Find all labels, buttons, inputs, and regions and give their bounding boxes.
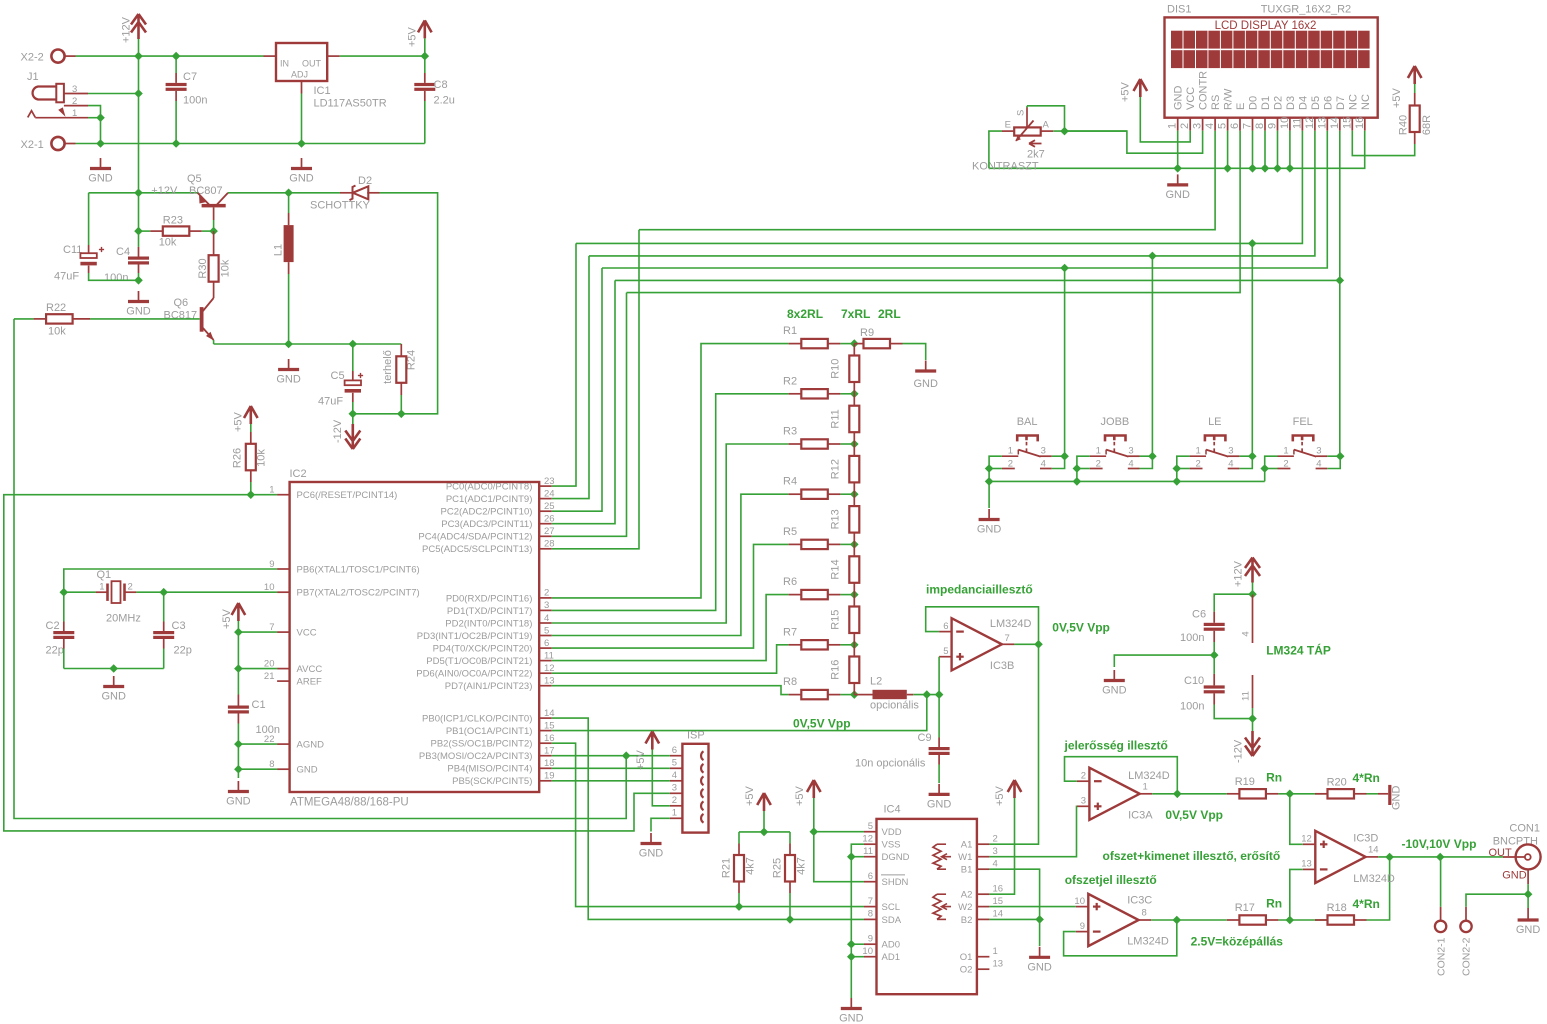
svg-text:68R: 68R: [1421, 115, 1433, 135]
svg-text:4k7: 4k7: [796, 857, 808, 875]
svg-text:ISP: ISP: [687, 730, 705, 742]
svg-text:1: 1: [672, 808, 677, 819]
svg-text:14: 14: [993, 909, 1004, 920]
svg-text:PB3(MOSI/OC2A/PCINT3): PB3(MOSI/OC2A/PCINT3): [419, 751, 533, 762]
svg-text:4: 4: [1228, 459, 1233, 470]
svg-text:PD0(RXD/PCINT16): PD0(RXD/PCINT16): [446, 593, 533, 604]
svg-text:D6: D6: [1322, 96, 1334, 110]
svg-text:+5V: +5V: [233, 411, 245, 432]
svg-text:10: 10: [862, 946, 873, 957]
svg-text:7: 7: [868, 896, 873, 907]
svg-text:+5V: +5V: [744, 785, 756, 806]
svg-text:C3: C3: [172, 620, 186, 632]
svg-text:5: 5: [672, 758, 677, 769]
svg-text:R25: R25: [772, 858, 784, 878]
svg-text:GND: GND: [1173, 86, 1185, 111]
svg-text:1: 1: [1167, 123, 1179, 129]
svg-text:ATMEGA48/88/168-PU: ATMEGA48/88/168-PU: [290, 797, 409, 809]
svg-text:17: 17: [544, 746, 555, 757]
svg-text:D1: D1: [1260, 96, 1272, 110]
svg-text:4: 4: [1316, 459, 1321, 470]
svg-text:16: 16: [993, 883, 1004, 894]
svg-text:IC3B: IC3B: [990, 660, 1014, 672]
svg-text:X2-2: X2-2: [21, 52, 44, 64]
svg-text:VCC: VCC: [1185, 87, 1197, 110]
svg-text:R40: R40: [1398, 115, 1410, 135]
svg-text:GND: GND: [1391, 786, 1403, 811]
svg-text:47uF: 47uF: [318, 396, 343, 408]
svg-text:PC6(/RESET/PCINT14): PC6(/RESET/PCINT14): [297, 490, 398, 501]
svg-text:PD5(T1/OC0B/PCINT21): PD5(T1/OC0B/PCINT21): [426, 656, 532, 667]
svg-text:16: 16: [1354, 117, 1366, 129]
svg-text:LE: LE: [1208, 416, 1221, 428]
svg-text:2: 2: [128, 582, 133, 593]
svg-text:C2: C2: [46, 620, 60, 632]
svg-text:W1: W1: [958, 852, 972, 863]
svg-text:10: 10: [264, 582, 275, 593]
svg-text:4: 4: [1204, 123, 1216, 129]
svg-text:J1: J1: [27, 71, 39, 83]
svg-text:4: 4: [544, 613, 549, 624]
svg-text:3: 3: [1228, 446, 1233, 457]
svg-text:13: 13: [544, 676, 555, 687]
svg-text:IC4: IC4: [884, 804, 901, 816]
svg-text:2k7: 2k7: [1027, 149, 1045, 161]
svg-text:R8: R8: [783, 676, 797, 688]
svg-text:8: 8: [1142, 908, 1147, 919]
svg-text:PD7(AIN1/PCINT23): PD7(AIN1/PCINT23): [445, 681, 533, 692]
svg-text:+5V: +5V: [1120, 81, 1132, 102]
svg-text:11: 11: [1241, 691, 1252, 701]
svg-text:impedanciaillesztő: impedanciaillesztő: [926, 583, 1033, 597]
svg-text:Q1: Q1: [97, 569, 112, 581]
svg-text:11: 11: [544, 650, 554, 661]
svg-text:D0: D0: [1248, 96, 1260, 110]
svg-text:LM324D: LM324D: [1353, 873, 1395, 885]
svg-text:B1: B1: [961, 865, 973, 876]
svg-text:C8: C8: [434, 79, 448, 91]
svg-text:PC4(ADC4/SDA/PCINT12): PC4(ADC4/SDA/PCINT12): [418, 532, 532, 543]
svg-text:PB4(MISO/PCINT4): PB4(MISO/PCINT4): [447, 764, 532, 775]
svg-text:PB2(SS/OC1B/PCINT2): PB2(SS/OC1B/PCINT2): [431, 739, 533, 750]
svg-text:3: 3: [672, 783, 677, 794]
svg-text:1: 1: [1283, 446, 1288, 457]
svg-text:IC2: IC2: [290, 468, 307, 480]
svg-text:GND: GND: [977, 524, 1002, 536]
svg-text:A1: A1: [961, 840, 973, 851]
svg-text:terhelő: terhelő: [382, 350, 394, 384]
svg-text:5: 5: [1217, 123, 1229, 129]
svg-text:4*Rn: 4*Rn: [1353, 771, 1380, 785]
svg-text:DGND: DGND: [882, 852, 910, 863]
svg-text:3: 3: [1192, 123, 1204, 129]
svg-text:2: 2: [672, 795, 677, 806]
svg-text:BC817: BC817: [164, 310, 198, 322]
svg-text:R13: R13: [830, 509, 842, 529]
svg-text:E: E: [1235, 103, 1247, 110]
svg-text:S: S: [1016, 110, 1027, 116]
svg-text:1: 1: [99, 582, 104, 593]
svg-text:IN: IN: [280, 59, 289, 69]
svg-text:BAL: BAL: [1017, 416, 1038, 428]
svg-text:12: 12: [1301, 834, 1312, 845]
svg-text:12: 12: [1304, 117, 1316, 129]
svg-text:+12V: +12V: [1233, 560, 1245, 587]
svg-text:C11: C11: [63, 244, 82, 256]
svg-text:R9: R9: [860, 327, 874, 339]
svg-text:L1: L1: [273, 244, 285, 256]
svg-text:R30: R30: [197, 258, 209, 278]
svg-text:1: 1: [1096, 446, 1101, 457]
svg-text:10k: 10k: [220, 259, 232, 277]
svg-text:ADJ: ADJ: [291, 70, 308, 80]
svg-text:21: 21: [264, 671, 275, 682]
svg-text:GND: GND: [639, 848, 664, 860]
svg-text:1: 1: [1143, 782, 1148, 793]
svg-text:3: 3: [1081, 796, 1086, 807]
svg-text:R1: R1: [783, 325, 797, 337]
svg-text:PB6(XTAL1/TOSC1/PCINT6): PB6(XTAL1/TOSC1/PCINT6): [297, 564, 420, 575]
svg-text:2: 2: [1008, 459, 1013, 470]
svg-text:47uF: 47uF: [54, 271, 79, 283]
svg-text:AD0: AD0: [882, 940, 900, 951]
svg-text:R5: R5: [783, 526, 797, 538]
svg-text:1: 1: [993, 946, 998, 957]
svg-text:PB5(SCK/PCINT5): PB5(SCK/PCINT5): [452, 776, 532, 787]
svg-text:3: 3: [993, 846, 998, 857]
svg-text:6: 6: [1229, 123, 1241, 129]
svg-text:GND: GND: [126, 306, 151, 318]
svg-text:L2: L2: [870, 676, 882, 688]
svg-text:9: 9: [1080, 921, 1085, 932]
svg-text:D3: D3: [1285, 96, 1297, 110]
svg-text:X2-1: X2-1: [21, 139, 44, 151]
svg-text:GND: GND: [1102, 685, 1127, 697]
svg-text:GND: GND: [913, 378, 938, 390]
svg-text:22p: 22p: [174, 645, 192, 657]
svg-text:CON1: CON1: [1509, 823, 1540, 835]
svg-text:D2: D2: [1273, 96, 1285, 110]
svg-text:C4: C4: [116, 246, 130, 258]
svg-text:GND: GND: [1165, 189, 1190, 201]
svg-text:-12V: -12V: [332, 419, 344, 443]
svg-text:Rn: Rn: [1266, 771, 1282, 785]
svg-text:R22: R22: [46, 302, 66, 314]
svg-text:8: 8: [868, 909, 873, 920]
svg-text:28: 28: [544, 539, 555, 550]
svg-text:PD6(AIN0/OC0A/PCINT22): PD6(AIN0/OC0A/PCINT22): [416, 669, 532, 680]
svg-text:R17: R17: [1235, 902, 1255, 914]
svg-text:9: 9: [868, 933, 873, 944]
svg-text:PB7(XTAL2/TOSC2/PCINT7): PB7(XTAL2/TOSC2/PCINT7): [297, 588, 420, 599]
svg-text:R4: R4: [783, 476, 797, 488]
svg-text:6: 6: [544, 638, 549, 649]
svg-text:IC1: IC1: [314, 85, 331, 97]
svg-text:B2: B2: [961, 915, 973, 926]
svg-text:10: 10: [1074, 896, 1085, 907]
svg-text:RS: RS: [1210, 95, 1222, 110]
svg-text:AVCC: AVCC: [297, 664, 323, 675]
svg-text:R7: R7: [783, 626, 797, 638]
svg-text:15: 15: [993, 896, 1004, 907]
svg-text:C10: C10: [1184, 675, 1204, 687]
svg-text:5: 5: [943, 646, 948, 657]
svg-text:3: 3: [1316, 446, 1321, 457]
svg-text:100n: 100n: [183, 95, 207, 107]
svg-text:LCD DISPLAY 16x2: LCD DISPLAY 16x2: [1215, 20, 1317, 32]
svg-text:R2: R2: [783, 375, 797, 387]
svg-text:100n: 100n: [1180, 701, 1204, 713]
svg-text:18: 18: [544, 758, 555, 769]
svg-text:R10: R10: [830, 359, 842, 379]
svg-text:R21: R21: [721, 858, 733, 878]
svg-text:7: 7: [269, 622, 274, 633]
svg-text:GND: GND: [88, 173, 113, 185]
svg-text:100n: 100n: [104, 272, 128, 284]
svg-text:Q6: Q6: [174, 297, 189, 309]
svg-text:R12: R12: [830, 459, 842, 479]
svg-text:2.2u: 2.2u: [434, 95, 455, 107]
svg-text:PB1(OC1A/PCINT1): PB1(OC1A/PCINT1): [446, 726, 533, 737]
svg-text:ofszetjel illesztő: ofszetjel illesztő: [1065, 873, 1157, 887]
svg-text:NC: NC: [1347, 94, 1359, 110]
svg-text:PC0(ADC0/PCINT8): PC0(ADC0/PCINT8): [446, 482, 533, 493]
svg-text:R3: R3: [783, 426, 797, 438]
svg-text:8x2RL: 8x2RL: [787, 307, 823, 321]
svg-text:3: 3: [1041, 446, 1046, 457]
svg-text:Q5: Q5: [187, 173, 202, 185]
svg-text:5: 5: [544, 625, 549, 636]
svg-text:13: 13: [993, 958, 1004, 969]
svg-text:BC807: BC807: [189, 185, 223, 197]
svg-text:Rn: Rn: [1266, 897, 1282, 911]
svg-text:D5: D5: [1310, 96, 1322, 110]
svg-text:R/W: R/W: [1223, 88, 1235, 110]
svg-text:+5V: +5V: [1391, 87, 1403, 108]
svg-text:A: A: [1043, 120, 1050, 131]
svg-text:R11: R11: [830, 409, 842, 428]
svg-text:22p: 22p: [46, 645, 64, 657]
svg-text:PD2(INT0/PCINT18): PD2(INT0/PCINT18): [445, 618, 532, 629]
svg-text:GND: GND: [1516, 924, 1541, 936]
svg-text:10k: 10k: [256, 449, 268, 467]
svg-text:R26: R26: [232, 448, 244, 468]
svg-text:4: 4: [993, 858, 998, 869]
svg-text:13: 13: [1301, 859, 1312, 870]
svg-text:PC5(ADC5/SCLPCINT13): PC5(ADC5/SCLPCINT13): [422, 544, 532, 555]
svg-text:D2: D2: [358, 175, 372, 187]
svg-text:AD1: AD1: [882, 952, 900, 963]
svg-text:24: 24: [544, 488, 555, 499]
svg-text:jelerősség illesztő: jelerősség illesztő: [1064, 738, 1168, 752]
svg-text:6: 6: [943, 621, 948, 632]
svg-text:11: 11: [1291, 118, 1303, 129]
svg-text:PD4(T0/XCK/PCINT20): PD4(T0/XCK/PCINT20): [433, 644, 533, 655]
svg-text:R19: R19: [1235, 776, 1255, 788]
svg-text:PB0(ICP1/CLKO/PCINT0): PB0(ICP1/CLKO/PCINT0): [422, 714, 532, 725]
svg-text:SCL: SCL: [882, 902, 900, 913]
svg-text:GND: GND: [839, 1013, 864, 1024]
svg-text:16: 16: [544, 733, 555, 744]
svg-text:D4: D4: [1297, 96, 1309, 110]
svg-text:OUT: OUT: [302, 59, 322, 69]
svg-text:+5V: +5V: [221, 608, 233, 629]
svg-text:3: 3: [544, 600, 549, 611]
svg-text:SCHOTTKY: SCHOTTKY: [310, 200, 371, 212]
svg-text:GND: GND: [226, 796, 251, 808]
svg-text:PC2(ADC2/PCINT10): PC2(ADC2/PCINT10): [441, 507, 533, 518]
svg-text:+5V: +5V: [994, 785, 1006, 806]
svg-text:DIS1: DIS1: [1167, 3, 1191, 15]
svg-text:CON2-2: CON2-2: [1461, 937, 1473, 976]
svg-text:-12V: -12V: [1233, 739, 1245, 763]
svg-text:11: 11: [863, 846, 873, 857]
svg-text:FEL: FEL: [1293, 416, 1313, 428]
svg-text:8: 8: [1254, 123, 1266, 129]
svg-text:SDA: SDA: [882, 915, 902, 926]
svg-text:TUXGR_16X2_R2: TUXGR_16X2_R2: [1261, 3, 1352, 15]
svg-text:LM324D: LM324D: [1127, 935, 1169, 947]
svg-text:IC3D: IC3D: [1353, 833, 1378, 845]
svg-text:100n: 100n: [1180, 632, 1204, 644]
svg-text:13: 13: [1316, 117, 1328, 129]
svg-text:+5V: +5V: [407, 26, 419, 47]
svg-text:4: 4: [1128, 459, 1133, 470]
svg-text:2: 2: [1283, 459, 1288, 470]
svg-text:VCC: VCC: [297, 628, 317, 639]
svg-text:R23: R23: [163, 215, 183, 227]
svg-text:GND: GND: [297, 765, 318, 776]
svg-text:+5V: +5V: [635, 749, 647, 770]
svg-text:5: 5: [868, 821, 873, 832]
svg-text:+12V: +12V: [151, 185, 178, 197]
svg-text:7: 7: [1005, 633, 1010, 644]
svg-text:26: 26: [544, 514, 555, 525]
svg-text:14: 14: [1368, 844, 1379, 855]
svg-text:2: 2: [1179, 123, 1191, 129]
svg-text:2.5V=középállás: 2.5V=középállás: [1191, 935, 1284, 949]
svg-text:2: 2: [993, 833, 998, 844]
svg-text:R16: R16: [830, 660, 842, 680]
svg-text:R14: R14: [830, 559, 842, 579]
svg-text:NC: NC: [1360, 94, 1372, 110]
svg-text:JOBB: JOBB: [1101, 416, 1130, 428]
svg-text:AGND: AGND: [297, 740, 325, 751]
svg-text:12: 12: [544, 663, 555, 674]
svg-text:6: 6: [672, 745, 677, 756]
svg-text:3: 3: [1128, 446, 1133, 457]
svg-text:2: 2: [544, 588, 549, 599]
svg-text:27: 27: [544, 526, 555, 537]
svg-text:15: 15: [1341, 117, 1353, 129]
svg-text:PC3(ADC3/PCINT11): PC3(ADC3/PCINT11): [441, 519, 532, 530]
svg-text:9: 9: [269, 559, 274, 570]
svg-text:8: 8: [269, 759, 274, 770]
svg-text:14: 14: [1329, 117, 1341, 129]
svg-text:E: E: [1005, 120, 1011, 131]
svg-text:-10V,10V Vpp: -10V,10V Vpp: [1402, 837, 1477, 851]
svg-text:14: 14: [544, 708, 555, 719]
svg-text:GND: GND: [927, 799, 952, 811]
svg-text:SHDN: SHDN: [882, 877, 909, 888]
svg-text:KONTRASZT: KONTRASZT: [972, 161, 1039, 173]
svg-text:R18: R18: [1327, 902, 1347, 914]
svg-text:C9: C9: [918, 732, 932, 744]
svg-text:25: 25: [544, 501, 555, 512]
svg-text:D7: D7: [1335, 96, 1347, 110]
svg-text:PC1(ADC1/PCINT9): PC1(ADC1/PCINT9): [446, 494, 533, 505]
svg-text:R6: R6: [783, 576, 797, 588]
svg-text:C1: C1: [252, 699, 266, 711]
svg-text:O2: O2: [960, 965, 973, 976]
svg-text:LM324D: LM324D: [1128, 770, 1170, 782]
svg-text:O1: O1: [960, 952, 973, 963]
svg-text:VDD: VDD: [882, 827, 902, 838]
svg-text:PD1(TXD/PCINT17): PD1(TXD/PCINT17): [447, 606, 533, 617]
svg-text:C5: C5: [331, 370, 345, 382]
svg-text:7: 7: [1242, 123, 1254, 129]
svg-text:20: 20: [264, 658, 275, 669]
svg-text:GND: GND: [276, 374, 301, 386]
svg-text:100n: 100n: [256, 724, 280, 736]
svg-text:4: 4: [1041, 459, 1046, 470]
svg-text:23: 23: [544, 476, 555, 487]
svg-text:10: 10: [1279, 117, 1291, 129]
svg-text:4: 4: [1241, 631, 1252, 636]
svg-text:2: 2: [1096, 459, 1101, 470]
svg-text:1: 1: [269, 485, 274, 496]
svg-text:0V,5V Vpp: 0V,5V Vpp: [1165, 808, 1223, 822]
svg-text:7xRL: 7xRL: [841, 307, 870, 321]
svg-text:C7: C7: [183, 71, 197, 83]
svg-text:LD117AS50TR: LD117AS50TR: [314, 98, 387, 110]
svg-text:+5V: +5V: [794, 785, 806, 806]
svg-text:15: 15: [544, 720, 555, 731]
svg-text:+12V: +12V: [121, 16, 133, 43]
svg-text:GND: GND: [1502, 870, 1527, 882]
svg-text:R15: R15: [830, 610, 842, 630]
svg-text:PD3(INT1/OC2B/PCINT19): PD3(INT1/OC2B/PCINT19): [417, 631, 533, 642]
svg-text:IC3A: IC3A: [1128, 809, 1153, 821]
svg-text:GND: GND: [101, 691, 126, 703]
svg-text:R20: R20: [1327, 777, 1347, 789]
svg-text:10k: 10k: [159, 237, 177, 249]
svg-text:4k7: 4k7: [745, 857, 757, 875]
svg-text:CON2-1: CON2-1: [1435, 937, 1447, 976]
svg-text:LM324D: LM324D: [990, 618, 1032, 630]
svg-text:12: 12: [862, 833, 873, 844]
svg-text:19: 19: [544, 771, 555, 782]
svg-text:9: 9: [1267, 123, 1279, 129]
svg-text:0V,5V Vpp: 0V,5V Vpp: [793, 717, 851, 731]
svg-text:2: 2: [1196, 459, 1201, 470]
svg-text:CONTR: CONTR: [1198, 71, 1210, 110]
svg-text:IC3C: IC3C: [1127, 895, 1152, 907]
svg-text:VSS: VSS: [882, 840, 901, 851]
svg-text:AREF: AREF: [297, 677, 323, 688]
svg-text:4: 4: [672, 770, 677, 781]
svg-text:opcionális: opcionális: [870, 700, 919, 712]
svg-text:2RL: 2RL: [878, 307, 901, 321]
svg-text:LM324 TÁP: LM324 TÁP: [1266, 643, 1331, 658]
svg-text:0V,5V Vpp: 0V,5V Vpp: [1052, 621, 1110, 635]
svg-text:20MHz: 20MHz: [106, 613, 141, 625]
svg-text:10n opcionális: 10n opcionális: [855, 758, 926, 770]
svg-text:4*Rn: 4*Rn: [1353, 897, 1380, 911]
svg-text:6: 6: [868, 871, 873, 882]
svg-text:GND: GND: [1027, 962, 1052, 974]
svg-text:10k: 10k: [48, 326, 66, 338]
